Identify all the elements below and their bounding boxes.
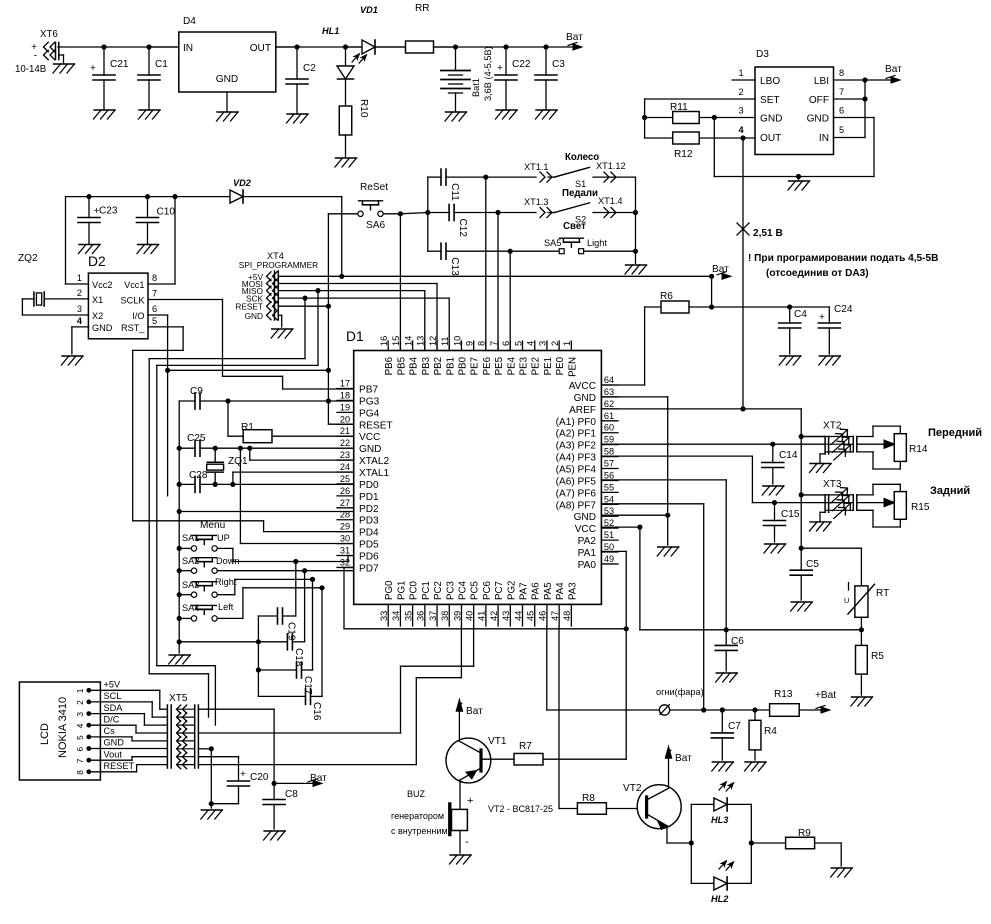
wire C13 to D1 pin6 <box>509 251 511 350</box>
node C13 branch <box>508 249 513 254</box>
wire D3 pin1 stub <box>732 79 755 81</box>
capacitor C24 <box>818 304 853 354</box>
svg-text:7: 7 <box>489 341 499 346</box>
svg-text:+: + <box>467 795 473 807</box>
node C15 tap <box>772 500 777 505</box>
svg-text:(A3) PF2: (A3) PF2 <box>556 441 597 452</box>
wire VT2 emitter <box>667 826 691 843</box>
wire switch right rail <box>635 177 637 263</box>
svg-text:OUT: OUT <box>760 133 781 144</box>
svg-text:PA2: PA2 <box>578 536 597 547</box>
IC D2 <box>77 254 157 339</box>
svg-text:C10: C10 <box>157 207 176 218</box>
resistor R1 <box>241 422 354 443</box>
ground buttons rail <box>169 655 191 664</box>
node SA2 rail <box>177 568 182 573</box>
wire D3 OFF row <box>834 98 866 100</box>
wire R6 to AVCC <box>601 307 644 385</box>
svg-text:PA4: PA4 <box>555 582 566 600</box>
svg-text:Light: Light <box>587 238 607 248</box>
resistor RR <box>406 3 456 53</box>
svg-text:GND: GND <box>574 393 596 404</box>
svg-text:PE7: PE7 <box>470 357 481 375</box>
pushbutton SA2 Down <box>179 556 354 573</box>
svg-text:Vcc2: Vcc2 <box>92 280 112 290</box>
capacitor C10 <box>137 197 176 245</box>
node LED left <box>689 840 694 845</box>
svg-text:6: 6 <box>839 106 844 116</box>
svg-text:Ват: Ват <box>675 753 692 764</box>
svg-text:2: 2 <box>75 700 85 705</box>
capacitor C3 <box>535 47 565 110</box>
pushbutton SA5 Light <box>544 221 607 254</box>
svg-text:SA5: SA5 <box>544 238 561 248</box>
svg-text:PD5: PD5 <box>359 540 379 551</box>
wire wheel row left <box>486 176 536 178</box>
svg-text:41: 41 <box>477 611 487 621</box>
node C25 crystal <box>213 446 218 451</box>
transistor VT1 <box>446 736 514 783</box>
ground XT5 <box>201 810 223 819</box>
IC D1 body <box>346 329 601 604</box>
svg-text:PC2: PC2 <box>433 581 444 600</box>
svg-text:5: 5 <box>513 341 523 346</box>
svg-text:PE6: PE6 <box>482 357 493 375</box>
svg-text:X2: X2 <box>92 311 103 321</box>
svg-text:3: 3 <box>77 304 82 314</box>
node right rail light <box>633 249 638 254</box>
IC D3 <box>738 49 844 155</box>
node rail junction C2 <box>294 44 299 49</box>
svg-text:17: 17 <box>340 379 350 389</box>
node LED right <box>749 840 754 845</box>
svg-text:XT3: XT3 <box>823 479 842 490</box>
svg-text:Left: Left <box>218 602 234 612</box>
wire XT4 +5V rail <box>278 275 711 277</box>
node XT5 gnd2 <box>209 801 214 806</box>
svg-text:PE2: PE2 <box>531 357 542 375</box>
svg-text:Передний: Передний <box>928 427 982 439</box>
wire VCC52 branch <box>601 527 640 630</box>
svg-text:GND: GND <box>574 512 596 523</box>
svg-text:10-14В: 10-14В <box>15 64 46 75</box>
node D3 gnd rail <box>796 174 801 179</box>
svg-text:PG1: PG1 <box>396 581 407 600</box>
svg-text:58: 58 <box>604 447 614 457</box>
node C28 crystal <box>213 482 218 487</box>
node XTAL1 tap <box>230 482 235 487</box>
svg-text:GND: GND <box>359 444 381 455</box>
svg-text:PD3: PD3 <box>359 516 379 527</box>
svg-text:SA6: SA6 <box>366 220 385 231</box>
node SA1 rail <box>177 546 182 551</box>
wire XT4 GND <box>278 315 281 327</box>
contact XT1.4 <box>593 196 636 218</box>
ground Bat1 <box>445 112 467 121</box>
ground BUZ <box>450 855 472 864</box>
svg-text:6: 6 <box>501 341 511 346</box>
capacitor C9 <box>179 386 354 409</box>
node SA4 C16 tap <box>319 585 324 590</box>
svg-text:PA6: PA6 <box>531 582 542 600</box>
node right rail pedal <box>633 210 638 215</box>
wire mid rail 630 <box>640 629 862 631</box>
svg-text:16: 16 <box>379 336 389 346</box>
svg-text:PB3: PB3 <box>421 357 432 375</box>
svg-text:PE4: PE4 <box>506 356 517 375</box>
node rail junction C21 <box>101 44 106 49</box>
wire XT3 bottom bracket <box>857 510 901 527</box>
svg-text:RT: RT <box>876 588 889 599</box>
node SA3 C17 tap <box>310 577 315 582</box>
svg-text:+: + <box>240 769 246 780</box>
svg-text:C25: C25 <box>187 433 206 444</box>
svg-text:Bat1: Bat1 <box>471 78 481 97</box>
svg-text:PC0: PC0 <box>409 581 420 600</box>
svg-text:Menu: Menu <box>200 520 225 531</box>
svg-text:+Bat: +Bat <box>815 690 836 701</box>
wire VT1 collector Bat <box>456 700 483 741</box>
svg-text:XT5: XT5 <box>169 693 188 704</box>
svg-text:D1: D1 <box>346 329 364 344</box>
svg-text:C21: C21 <box>110 59 129 70</box>
svg-text:VCC: VCC <box>359 432 380 443</box>
svg-text:PD4: PD4 <box>359 528 379 539</box>
svg-text:40: 40 <box>464 611 474 621</box>
svg-text:(A6) PF5: (A6) PF5 <box>556 476 597 487</box>
svg-text:61: 61 <box>604 411 614 421</box>
capacitor C11 <box>428 169 486 201</box>
wire C12 to D1 pin7 <box>497 213 499 351</box>
svg-text:Vcc1: Vcc1 <box>124 280 144 290</box>
wire VD2 to 5V rail <box>341 197 343 277</box>
svg-text:OFF: OFF <box>809 95 829 106</box>
wire buttons gnd rail bottom <box>179 641 258 643</box>
svg-text:PE0: PE0 <box>555 356 566 375</box>
capacitor C15 <box>764 503 800 542</box>
node D3 LBI junction <box>862 77 867 82</box>
svg-text:D2: D2 <box>88 254 106 269</box>
wire PD2 row <box>179 511 354 513</box>
node C17 rail <box>256 667 261 672</box>
svg-text:23: 23 <box>340 450 350 460</box>
svg-text:PE3: PE3 <box>519 357 530 375</box>
svg-text:PA5: PA5 <box>543 582 554 600</box>
svg-text:C2: C2 <box>303 63 316 74</box>
voltage regulator D4 <box>179 16 276 112</box>
varistor RT <box>844 583 889 630</box>
svg-text:GND: GND <box>104 738 125 748</box>
capacitor C16 <box>258 588 322 721</box>
resistor R13 <box>770 689 837 716</box>
svg-text:39: 39 <box>452 611 462 621</box>
wire D3 OUT vertical to AREF <box>742 138 744 409</box>
svg-text:45: 45 <box>526 611 536 621</box>
node GND53 <box>665 513 670 518</box>
svg-text:PD2: PD2 <box>359 504 379 515</box>
svg-text:SCLK: SCLK <box>120 296 145 306</box>
wire VT2 collector Bat <box>666 747 693 788</box>
svg-text:UP: UP <box>217 533 230 543</box>
node SA1 C19 tap <box>293 559 298 564</box>
svg-text:30: 30 <box>340 534 350 544</box>
wire GND53 row <box>601 514 667 516</box>
svg-text:Педали: Педали <box>562 188 598 199</box>
wire XTAL1 jog <box>233 472 354 484</box>
capacitor C19 <box>258 562 296 642</box>
svg-text:GND: GND <box>760 114 782 125</box>
wire XT5 r6 gnd <box>198 749 238 808</box>
wire C9 to R1 <box>228 401 243 436</box>
resistor R12 <box>673 132 700 160</box>
pins D1 bottom row PG/PC/PA <box>379 580 578 626</box>
capacitor C5 <box>790 548 819 600</box>
svg-text:C12: C12 <box>457 219 468 238</box>
wire light row <box>510 250 635 252</box>
wire LED bracket <box>691 804 751 883</box>
svg-text:C15: C15 <box>781 509 800 520</box>
ground C21 <box>94 110 116 119</box>
ground C2 <box>287 114 309 123</box>
text programming note line1 <box>748 253 938 264</box>
wire Menu row PD3 <box>133 520 264 531</box>
wire D4 OUT to rail <box>276 46 297 48</box>
wire D3 GND3 row <box>645 117 755 119</box>
text VT2 type <box>488 804 553 814</box>
contact XT1.1 <box>524 162 554 182</box>
wire D2 RST route <box>133 327 183 521</box>
svg-text:C22: C22 <box>512 59 531 70</box>
svg-text:64: 64 <box>604 375 614 385</box>
ground C23 <box>79 245 101 254</box>
svg-text:(A2) PF1: (A2) PF1 <box>556 429 597 440</box>
svg-text:C14: C14 <box>779 450 798 461</box>
node ladder rail C12 crossing <box>425 210 430 215</box>
svg-text:21: 21 <box>340 426 350 436</box>
svg-text:C16: C16 <box>311 702 322 721</box>
svg-text:+: + <box>90 63 96 74</box>
svg-text:генератором: генератором <box>391 811 444 821</box>
wire VT1 emitter <box>459 780 461 809</box>
svg-text:51: 51 <box>604 530 614 540</box>
text programming note line2 <box>766 268 869 279</box>
ground C24 <box>819 356 841 365</box>
capacitor C20 <box>198 757 269 804</box>
wire AREF row <box>601 408 801 410</box>
svg-text:PEN: PEN <box>567 357 578 377</box>
resistor R8 <box>577 793 646 814</box>
svg-text:PC7: PC7 <box>494 581 505 600</box>
svg-text:8: 8 <box>152 273 157 283</box>
wire XT4 SCK <box>278 298 449 350</box>
ground C1 <box>139 110 161 119</box>
node SA2 C18 tap <box>302 568 307 573</box>
svg-text:+5V: +5V <box>104 680 121 690</box>
wire XT4 MOSI <box>278 284 437 351</box>
svg-text:PE5: PE5 <box>494 357 505 375</box>
diode VD1 <box>346 5 406 54</box>
svg-text:19: 19 <box>340 402 350 412</box>
svg-text:6: 6 <box>75 747 85 752</box>
svg-text:5: 5 <box>75 735 85 740</box>
svg-text:Колесо: Колесо <box>565 152 599 163</box>
node C18 rail <box>256 639 261 644</box>
svg-text:59: 59 <box>604 435 614 445</box>
svg-text:XTAL2: XTAL2 <box>359 456 389 467</box>
svg-text:9: 9 <box>464 341 474 346</box>
svg-text:с внутренним: с внутренним <box>391 826 448 836</box>
wire C11 ladder left rail <box>427 177 429 251</box>
svg-text:(отсоединив от DA3): (отсоединив от DA3) <box>766 268 869 279</box>
wire C5 to RT <box>801 548 861 586</box>
svg-text:1: 1 <box>75 688 85 693</box>
node XT4 MISO branch <box>315 288 320 293</box>
svg-text:C23: C23 <box>99 206 118 217</box>
wire D2 GND <box>72 327 89 354</box>
svg-text:RESET: RESET <box>359 420 393 431</box>
capacitor C21 <box>90 47 129 110</box>
svg-text:(A4) PF3: (A4) PF3 <box>556 453 597 464</box>
connector XT3 <box>801 479 857 531</box>
svg-text:C20: C20 <box>250 772 269 783</box>
svg-text:35: 35 <box>403 611 413 621</box>
svg-text:R15: R15 <box>911 502 930 513</box>
node C6 tap <box>724 627 729 632</box>
svg-text:60: 60 <box>604 423 614 433</box>
node D3 OFF junction <box>862 96 867 101</box>
node D3 OUT junction <box>740 135 745 140</box>
svg-text:(A8) PF7: (A8) PF7 <box>556 500 597 511</box>
contact XT1.12 <box>593 161 636 182</box>
svg-text:47: 47 <box>550 611 560 621</box>
svg-text:R10: R10 <box>358 99 369 118</box>
svg-text:5: 5 <box>839 125 844 135</box>
svg-text:63: 63 <box>604 387 614 397</box>
capacitor C17 <box>258 579 313 695</box>
node SA6 output junction <box>398 211 403 216</box>
wire sensor supply vertical <box>800 409 802 548</box>
connector XT4 SPI_PROGRAMMER <box>235 251 318 321</box>
svg-text:огни(фара): огни(фара) <box>656 687 704 697</box>
node R11 right <box>712 115 717 120</box>
svg-text:IN: IN <box>819 133 829 144</box>
wire lights row <box>704 709 770 711</box>
svg-text:43: 43 <box>501 611 511 621</box>
ground C14 <box>762 486 784 495</box>
svg-text:5: 5 <box>152 316 157 326</box>
capacitor C1 <box>138 47 168 110</box>
node R11 left <box>642 115 647 120</box>
wire XT2 top bracket <box>857 426 901 436</box>
ground C6 <box>716 673 738 682</box>
svg-text:Cs: Cs <box>104 726 116 736</box>
svg-text:7: 7 <box>152 289 157 299</box>
node +5V VD2 junction <box>339 274 344 279</box>
node XTAL2 tap <box>247 446 252 451</box>
node XT4 RESET junction <box>326 304 331 309</box>
text front label <box>928 427 982 439</box>
svg-text:29: 29 <box>340 522 350 532</box>
svg-text:R7: R7 <box>519 741 532 752</box>
svg-text:14: 14 <box>403 336 413 346</box>
svg-text:24: 24 <box>340 462 350 472</box>
svg-text:1: 1 <box>77 273 82 283</box>
svg-text:PB4: PB4 <box>409 356 420 375</box>
buzzer BUZ <box>391 789 473 853</box>
svg-text:2: 2 <box>77 288 82 298</box>
wire XT3 mid wire <box>857 498 895 506</box>
text rear label <box>930 485 970 497</box>
svg-text:48: 48 <box>562 611 572 621</box>
svg-text:VD1: VD1 <box>360 5 378 15</box>
node R6 right <box>709 304 714 309</box>
svg-text:12: 12 <box>428 336 438 346</box>
capacitor C23 <box>78 197 118 245</box>
contact XT1.3 <box>524 197 554 218</box>
svg-text:25: 25 <box>340 474 350 484</box>
LED HL1 <box>322 26 368 106</box>
svg-text:Свет: Свет <box>563 221 586 232</box>
wire SA3 route <box>235 579 313 594</box>
wire XT2 mid wire <box>857 440 895 448</box>
svg-text:Ват: Ват <box>885 64 902 75</box>
diode VD2 <box>230 178 342 203</box>
capacitor C28 <box>179 470 354 492</box>
node rail junction C1 <box>146 44 151 49</box>
svg-text:LBI: LBI <box>814 76 829 87</box>
connector XT2 <box>801 421 857 473</box>
wire ladder rail <box>257 642 259 697</box>
capacitor C14 <box>762 444 798 484</box>
wire MISO branch to LCD <box>157 291 318 725</box>
capacitor C22 <box>495 47 531 110</box>
pins D1 right column <box>556 375 618 571</box>
svg-text:VT1: VT1 <box>488 736 507 747</box>
svg-text:VT2: VT2 <box>623 783 642 794</box>
wire pin47 route <box>559 626 577 809</box>
svg-text:XTAL1: XTAL1 <box>359 468 389 479</box>
svg-text:D/C: D/C <box>104 714 120 724</box>
wire reset vertical <box>328 214 353 424</box>
svg-text:PC5: PC5 <box>470 581 481 600</box>
svg-text:PG4: PG4 <box>359 408 380 419</box>
wire rail to D4 IN <box>149 46 179 48</box>
wire XT3 top bracket <box>857 484 901 495</box>
svg-text:2: 2 <box>738 87 743 97</box>
svg-text:8: 8 <box>839 68 844 78</box>
svg-text:Ват: Ват <box>566 32 583 43</box>
svg-text:56: 56 <box>604 470 614 480</box>
node D2 rail VD2 branch <box>172 194 177 199</box>
node D2 rail C23 <box>86 194 91 199</box>
svg-text:1: 1 <box>738 68 743 78</box>
svg-text:SET: SET <box>760 95 780 106</box>
node XT3 supply <box>799 492 804 497</box>
connector XT6 <box>15 29 64 75</box>
svg-text:PB2: PB2 <box>433 357 444 375</box>
node XT4 SCK branch <box>302 296 307 301</box>
wire XT4 RESET <box>278 305 328 307</box>
wire pedal row left <box>400 213 536 214</box>
LED HL2 <box>691 856 751 904</box>
svg-text:GND: GND <box>216 74 238 85</box>
node C28 rail <box>177 482 182 487</box>
svg-text:3,6В (4-5,5В): 3,6В (4-5,5В) <box>483 46 493 101</box>
node C25 rail <box>177 446 182 451</box>
svg-text:PE1: PE1 <box>543 357 554 375</box>
wire cap branch C4 <box>712 306 830 308</box>
svg-text:7: 7 <box>839 87 844 97</box>
